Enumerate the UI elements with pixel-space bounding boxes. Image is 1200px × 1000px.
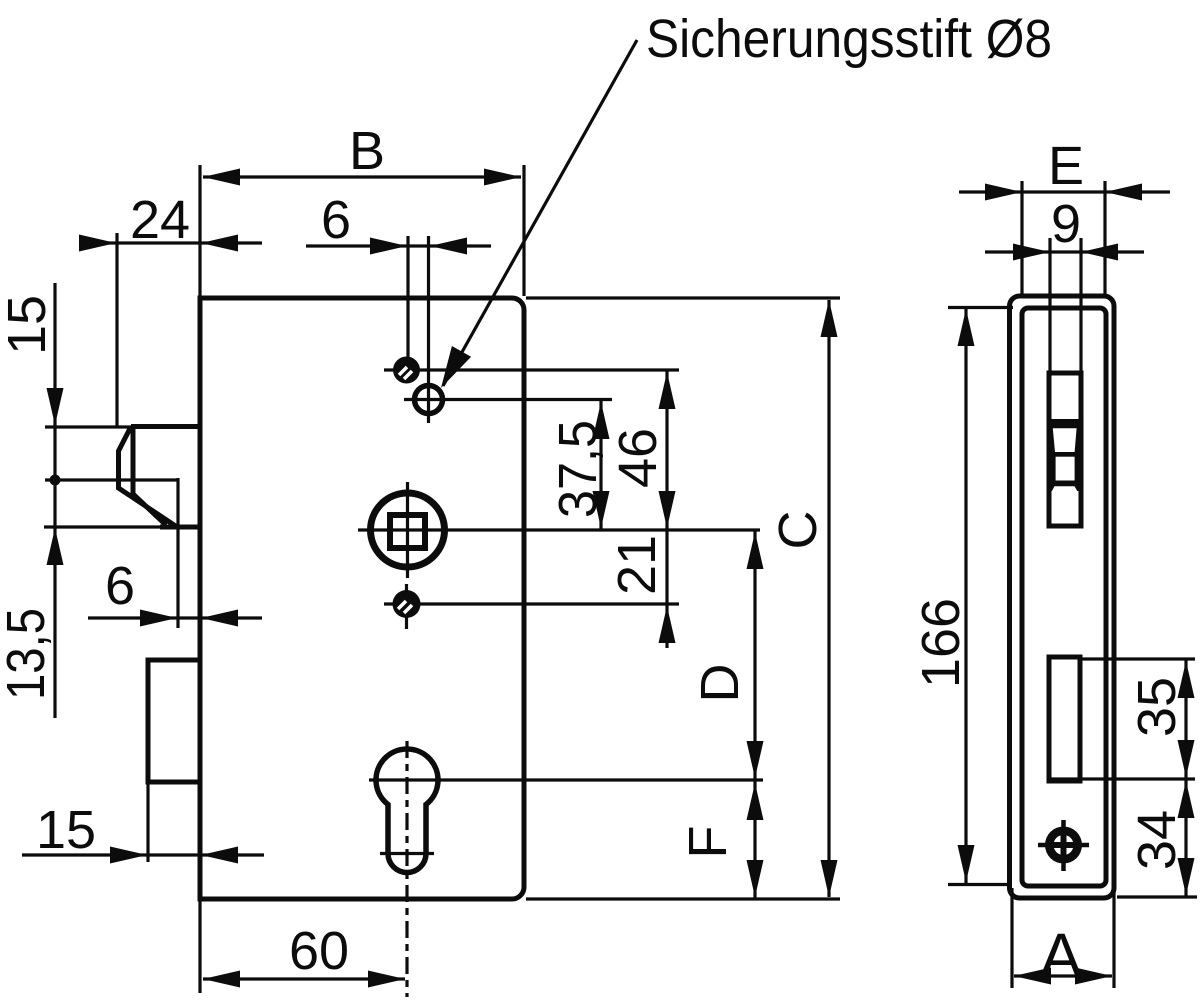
screw phillips cross arms (1061, 830, 1067, 860)
extension line 9 right x=1081 (1079, 238, 1082, 373)
extension line body bottom y=899 for C (526, 897, 840, 900)
arrow B right (484, 169, 521, 186)
arrow 166 top (958, 309, 975, 346)
arrow 37,5 bot (593, 491, 610, 528)
extension line body top y=298 for C (526, 296, 840, 299)
dimension 35 and 34 line x=1186 (1184, 659, 1187, 897)
arrow 35 top (1178, 661, 1195, 698)
dimension 46 and 21 line x=667 (665, 370, 668, 648)
node line y=399.5 through safety pin (37,5 reference) (404, 398, 612, 401)
svg-text:C: C (768, 511, 828, 550)
arrow 46 bot (659, 491, 676, 528)
svg-text:D: D (690, 664, 750, 703)
dimension 37,5 line x=601 (599, 400, 602, 531)
dimension D and F line x=755 (753, 530, 756, 899)
arrow 60 right (368, 971, 405, 988)
crosshair vertical of lower pin (405, 584, 408, 629)
dimension 60 line (203, 977, 405, 980)
pin hole solid circle (393, 357, 420, 384)
extension line 9 left x=1050 (1048, 238, 1051, 373)
arrow C bot (821, 860, 838, 897)
arrow 6left left (140, 610, 177, 627)
latch bolt middle section solid band (1047, 419, 1084, 491)
arrow 21 bot (659, 606, 676, 643)
svg-text:Sicherungsstift Ø8: Sicherungsstift Ø8 (646, 9, 1052, 69)
dimension 15 lower line (22, 853, 264, 856)
centre line keyhole horizontal (D/F reference) (369, 778, 763, 781)
leader line Sicherungsstift (443, 40, 637, 386)
svg-text:60: 60 (289, 921, 349, 981)
svg-text:166: 166 (911, 598, 971, 688)
side view lower slot (1049, 657, 1080, 781)
arrow 37,5 top (593, 402, 610, 439)
svg-text:15: 15 (36, 800, 96, 860)
latch bolt front profile (119, 427, 178, 528)
extension line body left top for B (198, 165, 201, 296)
svg-text:21: 21 (607, 535, 667, 595)
dimension 6 left line (88, 616, 262, 619)
screw head core (1054, 835, 1074, 855)
latch window 4 chamfered top (1052, 486, 1077, 491)
dimension dot latch centre (50, 475, 61, 486)
extension line E left x=1022 (1020, 181, 1023, 296)
extension line latch face x=117 (115, 233, 118, 428)
svg-text:E: E (1048, 136, 1084, 196)
arrow 15tl down (47, 388, 64, 425)
latch bolt bottom edge (160, 525, 200, 530)
follower square spindle hole (390, 515, 425, 548)
extension line pin hole x=408 (406, 236, 409, 357)
arrow 9 left (1013, 244, 1050, 261)
extension line body right top for B (522, 165, 525, 296)
reference tick 166 bottom y=884.5 (948, 883, 1010, 886)
arrow 166 bot (958, 845, 975, 882)
dimension A line (1014, 974, 1112, 977)
arrow A right (1075, 968, 1112, 985)
latch window 3 (1056, 457, 1075, 481)
latch bolt inner bevel line (133, 428, 166, 525)
lower pin white slashes (398, 601, 412, 613)
profile cylinder keyhole (376, 749, 438, 872)
arrow B left (203, 169, 240, 186)
svg-text:F: F (678, 826, 738, 859)
arrow 15low right (201, 847, 238, 864)
arrow D top (747, 532, 764, 569)
dimension 24 line (80, 241, 262, 244)
node line y=604 through lower pin (21 reference) (384, 602, 679, 605)
extension line E right x=1105 (1103, 181, 1106, 296)
arrow 13,5 up (47, 528, 64, 565)
arrow E right (1105, 184, 1142, 201)
safety pin circle Sicherungsstift (415, 386, 443, 414)
svg-text:13,5: 13,5 (0, 608, 56, 700)
centre line follower horizontal (21/D reference) (358, 528, 760, 531)
arrow 35 bot (1178, 740, 1195, 777)
centre line follower vertical (406, 482, 409, 578)
leader arrowhead (441, 346, 471, 388)
svg-text:B: B (349, 121, 385, 181)
svg-text:46: 46 (608, 428, 668, 488)
arrow 24 right (201, 235, 238, 252)
lower guide box (148, 660, 200, 782)
lock case body outline (200, 298, 524, 899)
extension line body left bottom for 60 (198, 901, 201, 993)
arrow F bot (747, 860, 764, 897)
reference tick 166 top y=307.5 (948, 306, 1013, 309)
reference line latch bottom y=527 (44, 525, 178, 528)
node line y=370 through pin hole (46 reference) (384, 368, 679, 371)
dimension 6 top line (306, 244, 491, 247)
arrow 15low left (110, 847, 147, 864)
extension line A left x=1012 (1010, 888, 1013, 988)
extension line A right x=1114 (1112, 888, 1115, 988)
svg-text:24: 24 (130, 190, 190, 250)
arrow D bot (747, 741, 764, 778)
dimension 9 line (985, 250, 1144, 253)
arrow 34 top (1178, 781, 1195, 818)
svg-text:34: 34 (1127, 810, 1187, 870)
arrow 6top right (430, 238, 467, 255)
extension line safety pin x=428.5 (427, 236, 430, 384)
reference line stulp bottom y=897 (1117, 895, 1197, 898)
arrow 24 left (79, 235, 116, 252)
svg-text:6: 6 (105, 556, 135, 616)
crosshair vertical of safety pin (427, 383, 430, 423)
dimension 166 line (964, 307, 967, 884)
svg-text:9: 9 (1051, 194, 1081, 254)
svg-text:37,5: 37,5 (548, 420, 608, 518)
side view stulp inner outline (1022, 308, 1106, 886)
dimension B line (203, 175, 521, 178)
dimension E line (959, 190, 1170, 193)
svg-text:6: 6 (321, 190, 351, 250)
arrow 34 bot (1178, 858, 1195, 895)
arrow A left (1014, 968, 1051, 985)
pin hole white slashes (399, 367, 412, 379)
arrow 6top left (370, 238, 407, 255)
extension line x=148 lower box (146, 782, 149, 862)
arrow C top (821, 300, 838, 337)
reference line latch centre y=480 (45, 478, 178, 481)
latch window 2 (1053, 428, 1077, 452)
arrow 46 top (659, 372, 676, 409)
screw crosshair vertical (1061, 820, 1066, 871)
svg-text:15: 15 (0, 295, 57, 355)
arrow 6left right (201, 610, 238, 627)
extension line x=178 latch bevel (176, 478, 179, 628)
screw head solid circle (1045, 827, 1082, 864)
svg-text:A: A (1040, 920, 1083, 992)
follower outer circle (371, 493, 445, 567)
dimension C line (827, 300, 830, 897)
latch bolt top edge (131, 424, 200, 429)
svg-text:35: 35 (1127, 677, 1187, 737)
lower pin solid circle (393, 590, 421, 618)
dimension 15/13,5 vertical line x=55 (53, 283, 56, 718)
arrow F top (747, 783, 764, 820)
arrow E left (985, 184, 1022, 201)
arrow 9 right (1081, 244, 1118, 261)
reference line slot top y=659 (1082, 657, 1195, 660)
reference line latch top y=427 (45, 425, 200, 428)
keyhole dashed centre line (405, 741, 408, 997)
side view latch slot (1049, 373, 1081, 526)
screw crosshair horizontal (1038, 843, 1089, 848)
reference line slot bottom y=779 (1047, 777, 1195, 780)
keyhole lower arc centre tick (380, 852, 434, 855)
side view stulp outer outline (1010, 296, 1115, 898)
arrow 60 left (203, 971, 240, 988)
